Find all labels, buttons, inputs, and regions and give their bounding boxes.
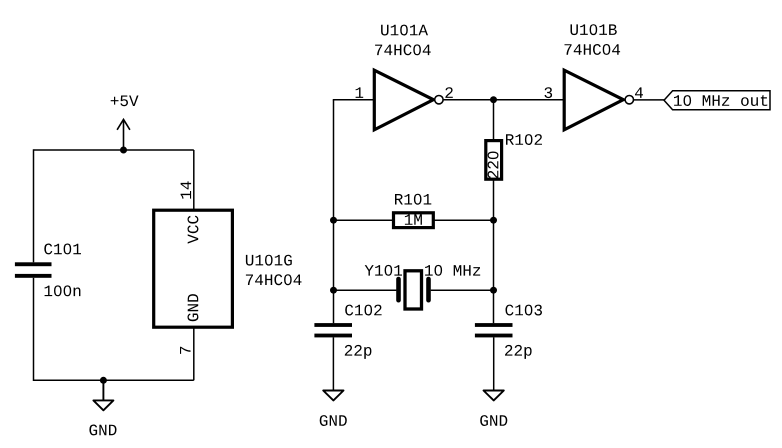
junction +5V node	[120, 147, 127, 154]
label C101	[44, 244, 81, 255]
wire crystal right	[431, 289, 494, 291]
wire R101 left	[334, 219, 394, 221]
crystal Y101 body	[405, 271, 422, 309]
label C102	[345, 305, 381, 316]
value 22p (C102)	[345, 345, 372, 359]
label R101	[395, 194, 431, 205]
power symbol +5V (arrow)	[117, 119, 130, 150]
junction ground node	[100, 377, 107, 384]
label U101G	[246, 255, 292, 266]
capacitor C103	[475, 323, 513, 337]
value 10 MHz	[425, 265, 480, 276]
wire C102 top	[333, 290, 335, 323]
pin number 2	[445, 87, 452, 98]
junction crystal right node	[490, 287, 497, 294]
wire bottom rail	[34, 379, 194, 381]
resistor R101 body	[394, 213, 434, 228]
wire pin 14	[193, 150, 195, 210]
ground symbol C103	[484, 391, 504, 401]
label U101A	[381, 25, 428, 36]
net label 10 MHz out	[674, 95, 767, 106]
op-amp U101G power unit body	[154, 210, 233, 327]
pin number 14	[181, 181, 192, 198]
label Y101	[365, 265, 402, 276]
ground symbol left	[93, 380, 113, 410]
junction R101 right node	[490, 217, 497, 224]
inverter U101B triangle	[564, 70, 623, 130]
wire left vertical lower	[33, 278, 35, 381]
label GND left	[89, 425, 116, 436]
label U101B	[571, 24, 617, 35]
pin number 7	[180, 347, 191, 354]
wire inverter A output to inverter B input	[443, 99, 564, 101]
resistor R102 body	[486, 141, 502, 180]
capacitor C101	[15, 262, 52, 278]
ground symbol C102	[323, 391, 343, 401]
wire left mid vertical	[333, 220, 335, 290]
value 74HC04 (U101A)	[375, 44, 431, 55]
value 74HC04 (U101G)	[246, 274, 302, 285]
inverter U101A output bubble	[435, 96, 443, 104]
wire crystal left	[334, 289, 397, 291]
label +5V	[111, 96, 139, 107]
inverter U101A triangle	[374, 70, 433, 130]
value 22p (C103)	[505, 345, 532, 359]
pin number 1	[356, 87, 364, 98]
wire right mid vertical	[493, 220, 495, 290]
wire pin 7	[193, 327, 195, 380]
junction R101 left node	[330, 217, 337, 224]
wire C103 top	[493, 290, 495, 323]
junction output A node	[490, 96, 497, 103]
label GND (C103)	[480, 415, 507, 426]
wire inverter B output	[634, 99, 665, 101]
inverter U101B output bubble	[625, 96, 633, 104]
value 220	[488, 151, 499, 178]
label C103	[506, 305, 543, 316]
pin number 3	[545, 87, 553, 98]
wire inverter A input horizontal	[333, 99, 375, 101]
wire R102 top	[493, 100, 495, 141]
label R102	[506, 134, 542, 145]
pin name VCC	[188, 216, 199, 244]
wire top rail	[34, 149, 194, 151]
wire R102 bottom	[493, 179, 495, 220]
net flag 10 MHz out	[664, 91, 770, 110]
label GND (C102)	[320, 415, 347, 426]
wire inverter A input vertical	[333, 100, 335, 221]
crystal Y101 left plate	[396, 279, 401, 300]
wire R101 right	[433, 219, 493, 221]
wire C103 to ground	[493, 337, 495, 390]
capacitor C102	[314, 323, 352, 337]
wire C102 to ground	[332, 337, 334, 390]
value 74HC04 (U101B)	[565, 44, 621, 55]
junction crystal left node	[330, 287, 337, 294]
pin number 4	[635, 87, 643, 98]
pin name GND	[187, 294, 198, 321]
crystal Y101 right plate	[426, 279, 431, 300]
value 1M	[405, 214, 422, 225]
value 100n	[45, 285, 81, 296]
wire left vertical upper	[33, 149, 35, 262]
